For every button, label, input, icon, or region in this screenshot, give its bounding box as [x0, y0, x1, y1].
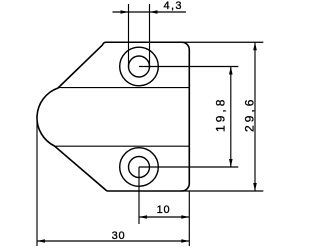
dim 30 arrow left [37, 239, 45, 243]
dim 29,6 arrow bottom [253, 183, 257, 191]
dim 10 arrow right [181, 215, 189, 219]
part outline [37, 42, 189, 191]
extension line part right edge extended down [188, 191, 190, 246]
extension line part left tip down [36, 120, 38, 246]
centerline top hole [139, 66, 238, 68]
svg-text:10: 10 [157, 204, 171, 216]
dim 10 arrow left [139, 215, 147, 219]
svg-text:30: 30 [112, 230, 126, 242]
centerline bottom hole horizontal [139, 166, 238, 168]
dim 19,8 arrow bottom [229, 159, 233, 167]
hole bottom inner circle [129, 157, 150, 178]
dim 30 dimension line [37, 240, 189, 242]
extension line right edge bottom [181, 190, 263, 192]
dim 4,3 arrow left [121, 10, 129, 14]
hole top outer circle [120, 47, 159, 86]
svg-text:19,8: 19,8 [214, 97, 228, 132]
tangent edge line bottom [55, 145, 190, 147]
svg-text:4,3: 4,3 [163, 0, 183, 12]
extension line right edge top [181, 41, 263, 43]
dim 4,3 dimension line [113, 11, 187, 13]
dim 4,3 extension line left [128, 4, 130, 68]
dim 4,3 arrow right [150, 10, 158, 14]
centerline bottom hole vertical [138, 167, 140, 224]
dim 19,8 arrow top [229, 67, 233, 75]
dim 19,8 dimension line [230, 67, 232, 168]
dim 10 dimension line [139, 216, 189, 218]
svg-text:29,6: 29,6 [242, 97, 256, 132]
hole bottom outer circle [120, 148, 159, 187]
dim 29,6 arrow top [253, 42, 257, 50]
tangent edge line top [58, 87, 189, 89]
dim 29,6 dimension line [254, 42, 256, 191]
dim 30 arrow right [181, 239, 189, 243]
dim 4,3 extension line right [149, 4, 151, 68]
hole top inner circle [129, 56, 150, 77]
